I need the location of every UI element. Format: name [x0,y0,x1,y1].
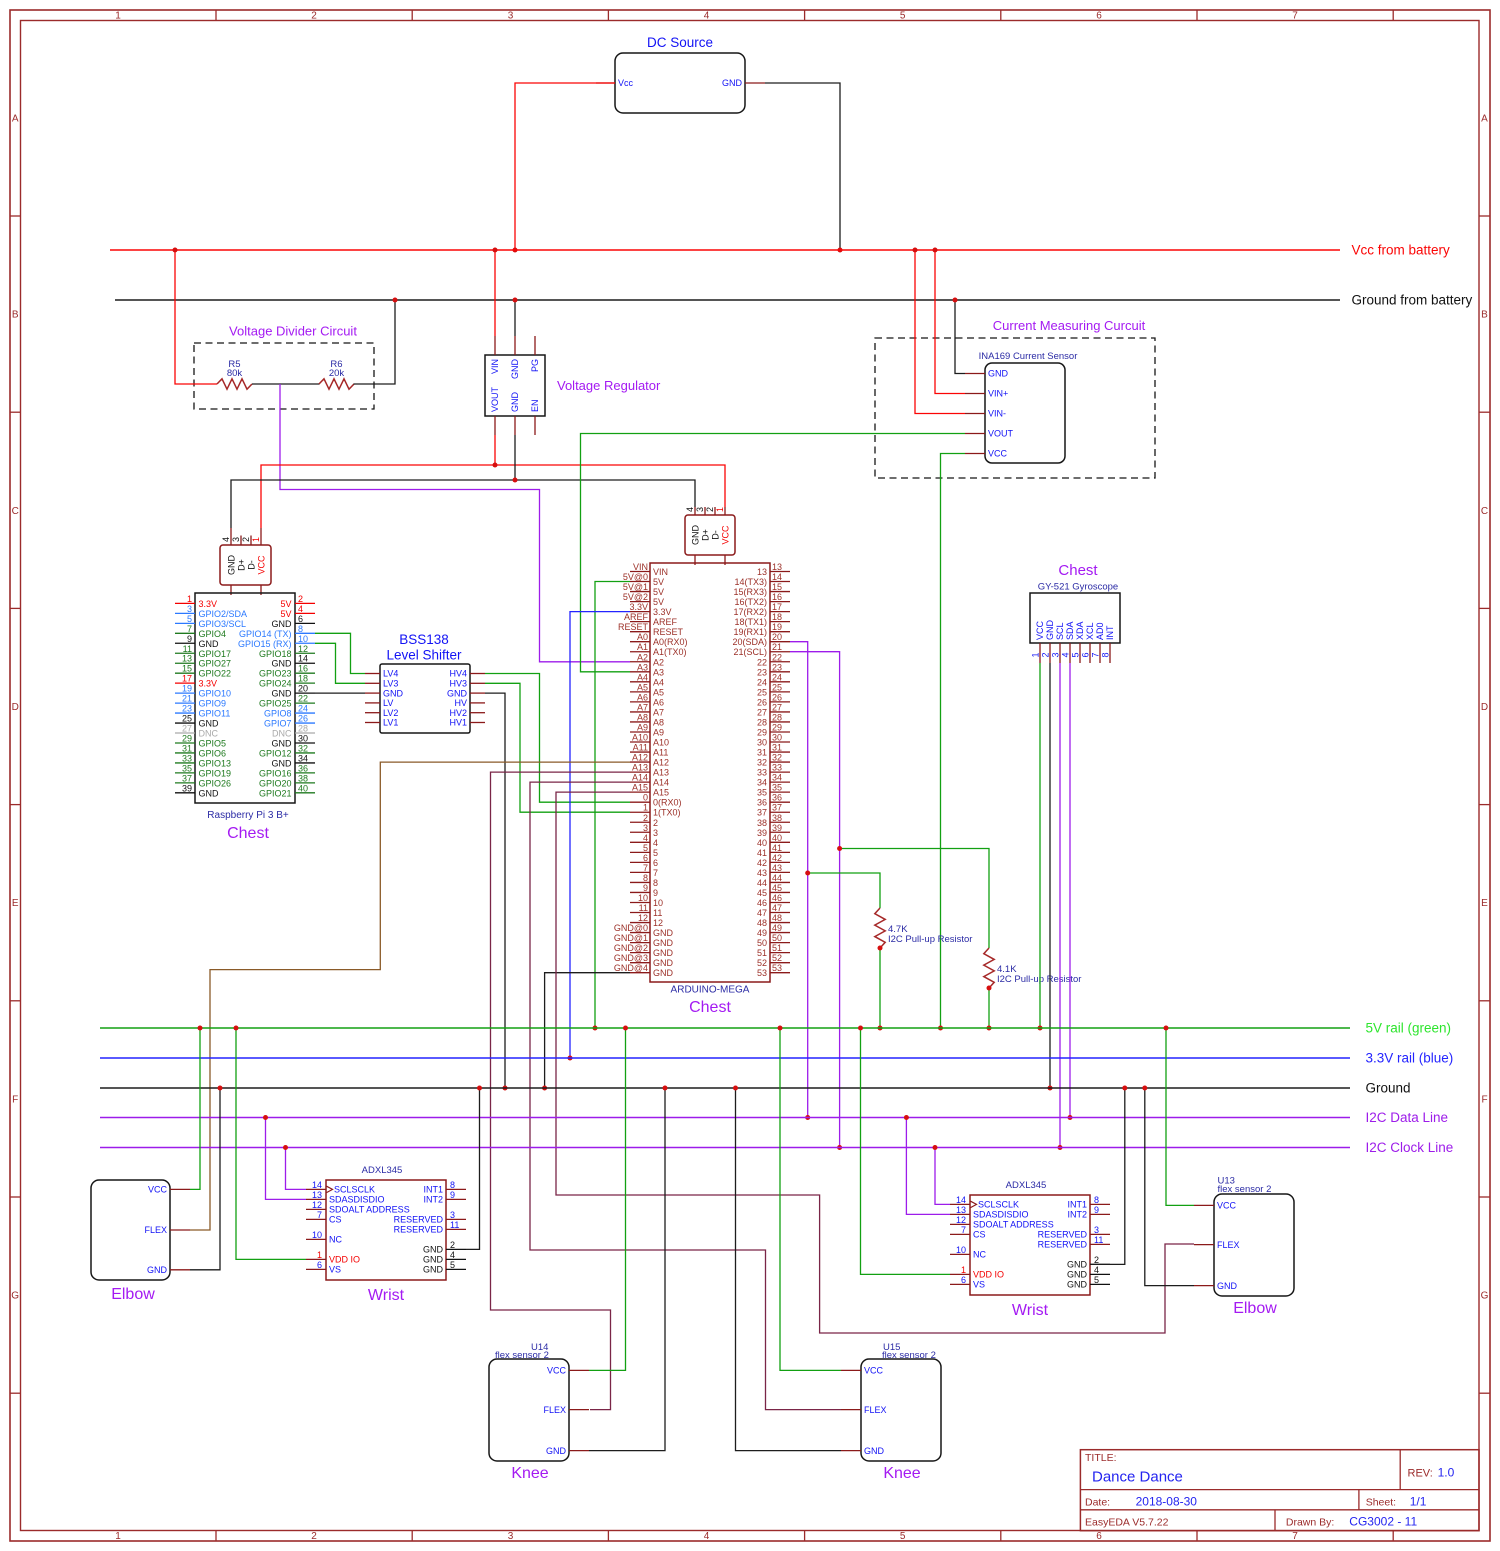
junction at (175,250) [173,248,178,253]
junction at (595,1028) [593,1026,598,1031]
svg-text:13: 13 [956,1205,966,1215]
svg-text:47: 47 [772,903,782,913]
wire U13 VCC to 5V rail [1166,1028,1194,1205]
svg-text:3: 3 [450,1210,455,1220]
svg-text:EasyEDA V5.7.22: EasyEDA V5.7.22 [1085,1517,1169,1529]
svg-text:A4: A4 [637,672,648,682]
junction at (735.5,1088) [733,1086,738,1091]
svg-text:SDOALT ADDRESS: SDOALT ADDRESS [329,1205,410,1215]
junction at (515,480) [513,478,518,483]
svg-text:15(RX3): 15(RX3) [733,587,767,597]
svg-text:5: 5 [1094,1275,1099,1285]
svg-text:24: 24 [772,672,782,682]
svg-text:31: 31 [757,748,767,758]
junction at (1144.8,1088) [1142,1086,1147,1091]
svg-text:5V: 5V [653,587,664,597]
svg-text:GND: GND [546,1446,567,1456]
svg-text:Current Measuring Curcuit: Current Measuring Curcuit [993,318,1146,333]
svg-text:DC Source: DC Source [647,35,713,50]
svg-text:Elbow: Elbow [111,1286,155,1303]
wire RPi GPIO14(TX) pin8 to level shifter LV4 [315,633,365,673]
svg-text:42: 42 [757,858,767,868]
svg-text:ADXL345: ADXL345 [1006,1180,1047,1191]
svg-text:Knee: Knee [511,1465,548,1482]
wire Arduino GND@4 to ground rail [545,973,630,1088]
svg-text:GPIO24: GPIO24 [259,679,292,689]
svg-text:TITLE:: TITLE: [1085,1452,1117,1464]
svg-text:FLEX: FLEX [543,1405,566,1415]
svg-text:36: 36 [757,798,767,808]
svg-text:36: 36 [298,763,308,773]
wire level shifter GND to ground rail [485,693,505,1088]
svg-text:VIN: VIN [490,359,500,374]
svg-text:Ground from battery: Ground from battery [1352,293,1473,308]
svg-text:Wrist: Wrist [368,1287,405,1304]
svg-text:2: 2 [653,818,658,828]
svg-text:VCC: VCC [864,1366,884,1376]
svg-text:HV1: HV1 [449,718,467,728]
wire regulator GND(bottom) to USB GND pins [231,480,695,528]
svg-text:A10: A10 [653,738,669,748]
voltage divider dashed box [194,343,374,409]
svg-text:9: 9 [1094,1205,1099,1215]
svg-text:GPIO25: GPIO25 [259,699,292,709]
svg-text:5V@1: 5V@1 [623,582,648,592]
svg-text:E: E [1481,898,1488,909]
svg-text:8: 8 [643,873,648,883]
svg-text:A15: A15 [653,788,669,798]
svg-text:GND: GND [1067,1270,1088,1280]
knee flex sensor U14 [489,1342,589,1482]
svg-text:GND: GND [272,619,293,629]
svg-text:46: 46 [772,893,782,903]
svg-text:GPIO4: GPIO4 [199,629,227,639]
svg-text:VS: VS [329,1265,341,1275]
svg-text:CS: CS [329,1215,342,1225]
junction at (989,988) [987,986,992,991]
svg-text:VCC: VCC [547,1366,567,1376]
svg-text:7: 7 [1292,11,1298,22]
svg-text:20: 20 [772,632,782,642]
svg-text:LV4: LV4 [383,669,398,679]
wire DC source GND down to Vcc rail [765,83,840,250]
junction at (220,1088) [218,1086,223,1091]
svg-text:7: 7 [643,863,648,873]
svg-text:GPIO14 (TX): GPIO14 (TX) [239,629,292,639]
svg-text:GPIO10: GPIO10 [199,689,232,699]
svg-text:2018-08-30: 2018-08-30 [1136,1495,1198,1509]
svg-text:SCL: SCL [1055,622,1065,640]
junction at (479.5,1088) [477,1086,482,1091]
svg-text:GND: GND [199,719,220,729]
svg-text:3: 3 [187,604,192,614]
wire Vcc rail to INA169 VIN+ [935,250,965,394]
svg-text:8: 8 [450,1180,455,1190]
wire INA169 VCC to 5V rail [941,454,966,1029]
svg-text:36: 36 [772,793,782,803]
svg-text:DNC: DNC [199,729,219,739]
svg-text:30: 30 [757,738,767,748]
svg-text:12: 12 [298,644,308,654]
junction at (495,465) [493,463,498,468]
svg-text:F: F [12,1095,18,1106]
svg-text:G: G [11,1291,19,1302]
svg-text:45: 45 [772,883,782,893]
svg-text:23: 23 [757,667,767,677]
svg-text:1.0: 1.0 [1438,1466,1455,1480]
wire ground rail to regulator GND(top) [514,300,516,336]
svg-text:10: 10 [298,634,308,644]
resistor R6 20k [319,359,354,389]
svg-text:Chest: Chest [1058,562,1098,579]
svg-text:VDD IO: VDD IO [973,1270,1004,1280]
svg-text:6: 6 [317,1260,322,1270]
svg-text:GPIO21: GPIO21 [259,788,292,798]
svg-text:4: 4 [450,1250,455,1260]
svg-text:INT1: INT1 [423,1185,443,1195]
wire Arduino A14 to knee U15 FLEX [530,782,841,1410]
svg-text:GND: GND [272,758,293,768]
svg-text:4: 4 [1061,652,1071,657]
svg-text:11: 11 [450,1220,459,1230]
wire Arduino 21(SCL) to I2C clock line [790,652,840,1148]
net Ground from battery (black rail) [115,299,1340,301]
svg-text:VDD IO: VDD IO [329,1255,360,1265]
svg-text:PG: PG [530,359,540,372]
svg-text:A11: A11 [653,748,668,758]
svg-text:VCC: VCC [257,555,267,575]
svg-text:6: 6 [298,614,303,624]
svg-text:34: 34 [757,778,767,788]
svg-text:LV1: LV1 [383,718,398,728]
svg-text:1: 1 [961,1265,966,1275]
wire Arduino A13 to knee U14 FLEX [491,772,631,1410]
svg-text:HV2: HV2 [449,708,467,718]
junction at (935,1147.5) [933,1145,938,1150]
svg-text:GND: GND [653,948,674,958]
svg-text:GPIO13: GPIO13 [199,758,232,768]
svg-text:15: 15 [182,664,192,674]
svg-text:INT1: INT1 [1067,1200,1087,1210]
svg-text:17: 17 [772,602,782,612]
svg-text:GPIO5: GPIO5 [199,738,227,748]
svg-text:A9: A9 [637,722,648,732]
svg-text:GND: GND [447,688,468,698]
wire Arduino 20(SDA) to I2C data line [790,642,808,1118]
svg-text:GND: GND [423,1245,444,1255]
svg-text:37: 37 [757,808,767,818]
svg-text:FLEX: FLEX [1217,1240,1240,1250]
svg-text:RESET: RESET [618,622,649,632]
svg-text:A12: A12 [632,753,648,763]
svg-text:Dance Dance: Dance Dance [1092,1469,1183,1486]
svg-text:A15: A15 [632,783,648,793]
svg-text:1: 1 [251,537,261,542]
svg-text:5V: 5V [280,599,291,609]
wire left elbow GND to ground rail [190,1088,220,1270]
svg-text:VCC: VCC [721,525,731,545]
wire RPi GPIO15(RX) pin10 to level shifter LV3 [315,643,365,683]
svg-text:A: A [12,114,19,125]
svg-text:1/1: 1/1 [1410,1495,1427,1509]
svg-text:19(RX1): 19(RX1) [733,627,767,637]
svg-text:10: 10 [956,1245,966,1255]
svg-text:2: 2 [298,594,303,604]
svg-text:52: 52 [757,958,767,968]
svg-text:15: 15 [772,582,782,592]
svg-text:GPIO26: GPIO26 [199,778,232,788]
svg-text:A0(RX0): A0(RX0) [653,637,688,647]
svg-text:REV:: REV: [1408,1468,1433,1480]
wire 4.7K to 5V rail [879,948,881,1028]
svg-text:GPIO15 (RX): GPIO15 (RX) [238,639,292,649]
svg-text:XDA: XDA [1075,621,1085,640]
svg-text:A3: A3 [637,662,648,672]
svg-text:44: 44 [772,873,782,883]
svg-text:3: 3 [1051,652,1061,657]
svg-text:5: 5 [643,843,648,853]
svg-text:GND: GND [988,369,1009,379]
net I2C Data Line [100,1117,1350,1119]
svg-text:33: 33 [182,753,192,763]
svg-text:24: 24 [298,704,308,714]
svg-text:VCC: VCC [988,449,1008,459]
svg-text:11: 11 [653,908,662,918]
svg-text:40: 40 [772,833,782,843]
voltage regulator U2 [485,336,661,435]
svg-text:ADXL345: ADXL345 [362,1165,403,1176]
svg-text:2: 2 [1094,1255,1099,1265]
wire left wrist SCL to I2C clock line [286,1148,307,1190]
svg-text:VIN: VIN [653,567,668,577]
svg-text:4: 4 [685,507,695,512]
svg-text:NC: NC [973,1250,986,1260]
svg-text:40: 40 [757,838,767,848]
svg-text:A14: A14 [653,778,669,788]
left elbow flex sensor [91,1180,190,1303]
svg-text:2: 2 [643,813,648,823]
svg-text:5: 5 [187,614,192,624]
svg-text:50: 50 [772,933,782,943]
svg-text:A: A [1481,114,1488,125]
net Vcc from battery (red rail) [110,249,1340,251]
svg-text:A9: A9 [653,727,664,737]
svg-text:RESERVED: RESERVED [394,1225,444,1235]
svg-text:GND: GND [423,1265,444,1275]
wire Arduino 3.3V to 3.3V rail [570,612,630,1058]
wire U14 VCC to 5V rail [589,1028,626,1370]
svg-text:3.3V: 3.3V [629,602,648,612]
junction at (807.7,873) [805,871,810,876]
knee flex sensor U15 [841,1342,941,1482]
svg-text:SCLSCLK: SCLSCLK [334,1185,375,1195]
svg-text:A0: A0 [637,632,648,642]
svg-text:26: 26 [757,697,767,707]
svg-text:34: 34 [298,753,308,763]
svg-text:4: 4 [221,537,231,542]
svg-text:Sheet:: Sheet: [1366,1497,1396,1509]
svg-text:5: 5 [1071,652,1081,657]
junction at (880,1028) [878,1026,883,1031]
svg-text:3: 3 [695,507,705,512]
junction at (1060,1147.5) [1058,1145,1063,1150]
svg-text:GND: GND [722,78,743,88]
svg-text:GND: GND [1067,1260,1088,1270]
svg-text:Date:: Date: [1085,1497,1110,1509]
svg-text:4: 4 [704,11,710,22]
svg-text:RESERVED: RESERVED [1038,1240,1088,1250]
junction at (1124.8,1088) [1122,1086,1127,1091]
junction at (940.5,1028) [938,1026,943,1031]
svg-text:Ground: Ground [1366,1081,1411,1096]
wire I2C SDA to 4.7K pull-up [808,873,880,908]
svg-text:GPIO16: GPIO16 [259,768,292,778]
svg-text:14: 14 [956,1195,966,1205]
svg-text:D+: D+ [237,559,247,571]
svg-text:A8: A8 [637,712,648,722]
wire right wrist VDD IO to 5V rail [861,1028,951,1274]
svg-text:BSS138: BSS138 [399,632,449,647]
svg-text:7: 7 [1091,652,1101,657]
wire divider tap to Arduino A2 (purple) [280,384,630,662]
svg-text:AD0: AD0 [1095,622,1105,640]
svg-text:GPIO22: GPIO22 [199,669,232,679]
svg-text:14: 14 [312,1180,322,1190]
svg-text:38: 38 [757,818,767,828]
svg-text:VS: VS [973,1280,985,1290]
svg-text:A14: A14 [632,773,648,783]
svg-text:D-: D- [711,530,721,540]
svg-text:C: C [1481,506,1488,517]
svg-text:1(TX0): 1(TX0) [653,808,681,818]
wire ground rail to INA169 GND [955,300,965,374]
svg-text:13: 13 [312,1190,322,1200]
svg-text:28: 28 [757,717,767,727]
svg-text:3.3V rail (blue): 3.3V rail (blue) [1366,1051,1454,1066]
svg-text:NC: NC [329,1235,342,1245]
svg-text:SDASDISDIO: SDASDISDIO [973,1210,1029,1220]
svg-text:5V: 5V [653,597,664,607]
wire Vcc rail to regulator VIN [494,250,496,336]
svg-text:26: 26 [298,714,308,724]
svg-text:XCL: XCL [1085,622,1095,640]
svg-text:GND@3: GND@3 [614,953,648,963]
svg-text:1: 1 [187,594,192,604]
junction at (505,1088) [503,1086,508,1091]
svg-text:A4: A4 [653,677,664,687]
svg-text:4: 4 [298,604,303,614]
svg-text:3: 3 [231,537,241,542]
svg-text:10: 10 [312,1230,322,1240]
svg-text:24: 24 [757,677,767,687]
wire regulator VOUT 5V to USB VCC pins [261,465,725,528]
svg-text:28: 28 [298,724,308,734]
wire RPi GND pin20 to level shifter GND [315,692,365,694]
svg-text:46: 46 [757,898,767,908]
svg-text:40: 40 [298,783,308,793]
junction at (839.6,848.5) [837,846,842,851]
svg-text:RESERVED: RESERVED [1038,1230,1088,1240]
svg-text:LV: LV [383,698,393,708]
svg-text:33: 33 [772,763,782,773]
net I2C Clock Line [100,1147,1350,1149]
junction at (989,1028) [987,1026,992,1031]
svg-text:3: 3 [1094,1225,1099,1235]
svg-text:Raspberry Pi 3 B+: Raspberry Pi 3 B+ [207,810,289,821]
svg-text:VCC: VCC [1035,620,1045,640]
wire Vcc rail to INA169 VIN- [915,250,965,414]
svg-text:39: 39 [757,828,767,838]
svg-text:12: 12 [956,1215,966,1225]
svg-text:44: 44 [757,878,767,888]
junction DC-Vcc at (515,250) [513,248,518,253]
svg-text:GPIO8: GPIO8 [264,709,292,719]
svg-text:29: 29 [182,733,192,743]
svg-text:VIN-: VIN- [988,409,1006,419]
svg-text:0(RX0): 0(RX0) [653,798,682,808]
svg-text:14: 14 [298,654,308,664]
svg-text:13: 13 [772,562,782,572]
wire level shifter HV3 to Arduino 1(TX0) [485,683,630,812]
svg-text:GND: GND [272,659,293,669]
svg-text:37: 37 [182,773,192,783]
junction at (265.5,1117.5) [263,1115,268,1120]
svg-text:1: 1 [643,803,648,813]
svg-text:29: 29 [772,722,782,732]
svg-text:AREF: AREF [653,617,678,627]
svg-text:21: 21 [182,694,192,704]
svg-text:18: 18 [298,674,308,684]
svg-text:23: 23 [772,662,782,672]
svg-text:E: E [12,898,19,909]
RPi USB connector CN1 [220,528,271,595]
svg-text:27: 27 [772,702,782,712]
junction at (807.7,1117.5) [805,1115,810,1120]
svg-text:52: 52 [772,953,782,963]
svg-text:GPIO7: GPIO7 [264,719,292,729]
DC source U1 [596,35,765,113]
svg-text:A3: A3 [653,667,664,677]
svg-text:39: 39 [182,783,192,793]
svg-text:Voltage Regulator: Voltage Regulator [557,378,661,393]
svg-text:EN: EN [530,399,540,412]
svg-text:INT2: INT2 [1067,1210,1087,1220]
wire U15 GND to ground rail [736,1088,842,1451]
current measuring dashed box [875,338,1155,478]
wire GY-521 GND to ground rail [1049,663,1051,1088]
svg-text:6: 6 [653,858,658,868]
svg-text:27: 27 [182,724,192,734]
svg-text:51: 51 [757,948,767,958]
svg-text:HV: HV [454,698,467,708]
svg-text:GPIO19: GPIO19 [199,768,232,778]
svg-text:FLEX: FLEX [144,1225,167,1235]
Raspberry Pi 3 B+ (Chest) [175,593,315,842]
svg-text:4: 4 [643,833,648,843]
title block [1080,1450,1479,1531]
junction at (860.5,1028) [858,1026,863,1031]
svg-text:2: 2 [1041,652,1051,657]
svg-text:14: 14 [772,572,782,582]
svg-text:16: 16 [772,592,782,602]
BSS138 level shifter U4 [365,632,485,733]
svg-text:Vcc: Vcc [618,78,634,88]
svg-text:GND@2: GND@2 [614,943,648,953]
svg-text:LV2: LV2 [383,708,398,718]
svg-text:GND@1: GND@1 [614,933,648,943]
svg-text:D-: D- [247,560,257,570]
svg-text:GPIO20: GPIO20 [259,778,292,788]
